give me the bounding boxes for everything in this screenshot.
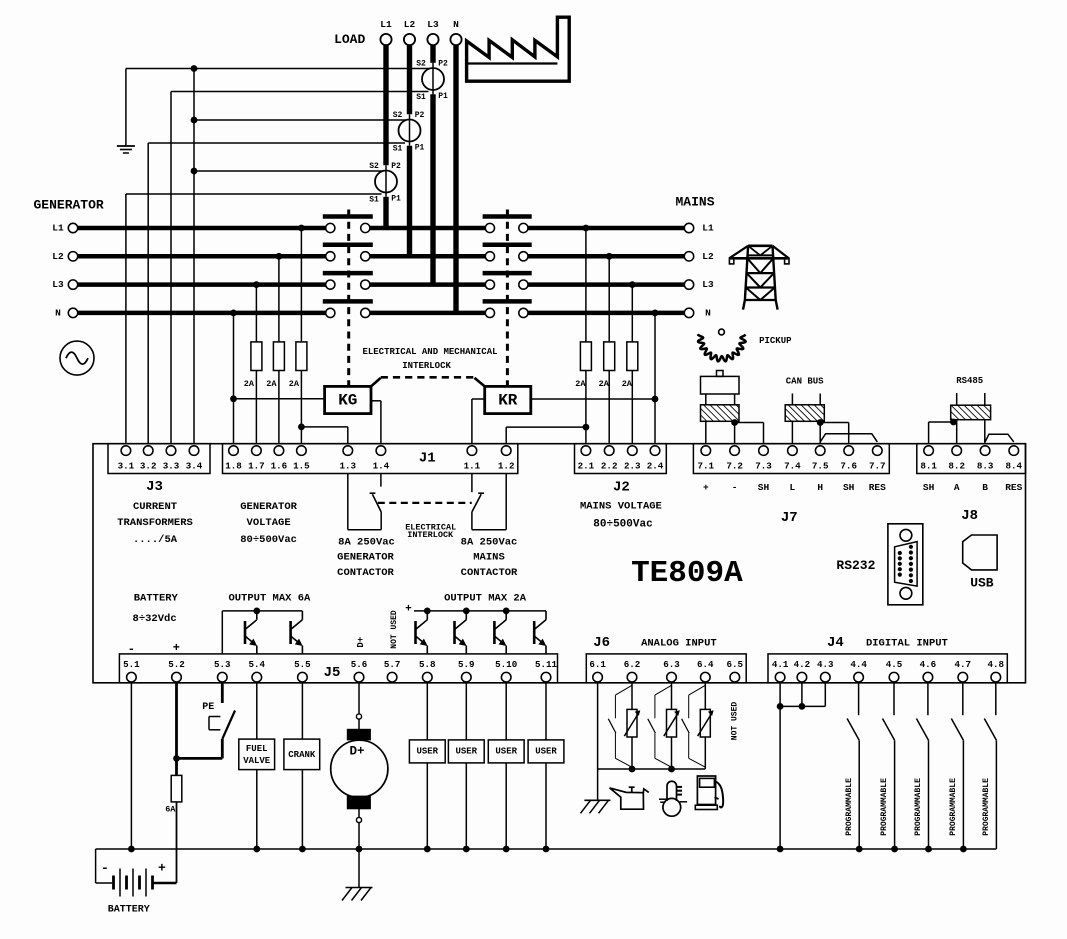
- wire tap 2.1 (L1) upper: [583, 225, 590, 342]
- wire 7.4 vertical: [791, 421, 793, 443]
- svg-text:1.5: 1.5: [293, 461, 310, 472]
- svg-text:7.2: 7.2: [726, 461, 743, 472]
- terminal 7.3: [755, 446, 772, 472]
- wire USER box to bus at 546: [543, 763, 550, 852]
- USER box at 546: [528, 740, 564, 763]
- interlock dashed line (mech): [381, 376, 475, 379]
- svg-text:PROGRAMMABLE: PROGRAMMABLE: [914, 778, 923, 836]
- terminal 4.5: [886, 659, 903, 682]
- label NOT USED rotated (6.5): [730, 702, 739, 741]
- wire generator bus L1: [78, 226, 326, 231]
- svg-text:L1: L1: [380, 19, 392, 30]
- label J7 pin H: [817, 482, 823, 493]
- terminal 5.5: [294, 659, 311, 682]
- terminal 4.3: [817, 659, 834, 682]
- svg-text:4.5: 4.5: [886, 659, 903, 670]
- svg-text:1.2: 1.2: [498, 461, 515, 472]
- main board outline TE809A controller: [93, 444, 1026, 683]
- terminal 4.4: [850, 659, 867, 682]
- wire 3.1 vertical: [125, 194, 127, 444]
- svg-text:+: +: [405, 604, 412, 616]
- pickup shielded cable (hatched): [701, 405, 740, 422]
- CAN bus stubs: [792, 394, 820, 405]
- label 8A 250Vac GENERATOR CONTACTOR: [337, 537, 395, 580]
- contactor KR pole row 4: [483, 301, 532, 317]
- generator terminal L1: [52, 223, 77, 234]
- svg-text:5.7: 5.7: [384, 659, 401, 670]
- svg-text:NOT USED: NOT USED: [390, 610, 399, 649]
- connector J2 box: [575, 444, 667, 474]
- svg-text:S1: S1: [369, 196, 379, 205]
- svg-text:LOAD: LOAD: [334, 32, 365, 47]
- wire tap 1.5 (L1) upper: [298, 225, 305, 342]
- wire tap 2.3 lower: [631, 371, 633, 444]
- svg-text:FUEL: FUEL: [246, 744, 268, 754]
- mains terminal N: [684, 307, 711, 318]
- terminal 1.3: [340, 446, 357, 472]
- wire tap 1.7 (L3) upper: [253, 281, 260, 342]
- terminal 1.5: [293, 446, 310, 472]
- D+ alternator brush bottom: [347, 796, 370, 809]
- wire KG coil left to N tap: [234, 398, 325, 400]
- svg-text:7.3: 7.3: [755, 461, 772, 472]
- generator terminal L3: [52, 279, 77, 290]
- load terminal N: [450, 19, 461, 45]
- wire 8.2 vertical: [950, 419, 957, 444]
- svg-text:2A: 2A: [599, 379, 610, 389]
- label PROGRAMMABLE (995.8): [982, 778, 991, 836]
- contactor coil KR: [485, 386, 531, 413]
- analog bypass switch (fuel level): [682, 685, 706, 767]
- wire 7.5 vertical: [817, 419, 824, 444]
- wire D+ to chassis ground: [358, 849, 360, 888]
- svg-text:NOT USED: NOT USED: [730, 702, 739, 741]
- terminal 7.7: [869, 446, 886, 472]
- terminal 8.4: [1006, 446, 1023, 472]
- terminal 2.3: [624, 446, 641, 472]
- svg-text:L3: L3: [427, 19, 439, 30]
- transistor output 5.5: [291, 611, 303, 654]
- svg-text:N: N: [453, 19, 459, 30]
- svg-text:S2: S2: [393, 111, 403, 120]
- svg-text:7.7: 7.7: [869, 461, 886, 472]
- terminal 2.4: [647, 446, 664, 472]
- wire CT common S2 bus horizontal (to CT1): [126, 68, 430, 70]
- label MAINS (top right): [675, 195, 714, 210]
- wire USER box to bus at 466.3: [463, 763, 470, 852]
- terminal 8.1: [920, 446, 937, 472]
- USB connector icon: [963, 535, 997, 570]
- label J8: [961, 508, 978, 524]
- battery cells: [114, 869, 153, 897]
- svg-text:-: -: [732, 482, 738, 493]
- wire 3.3 vertical: [170, 92, 172, 444]
- contactor KG pole row 4: [323, 301, 373, 317]
- fuse 2A mains L3: [622, 342, 638, 389]
- wire 6.1 to chassis ground: [597, 769, 599, 800]
- svg-text:USER: USER: [455, 746, 477, 756]
- svg-text:TE809A: TE809A: [631, 556, 743, 591]
- wire ground stem (CT common): [125, 69, 127, 147]
- svg-text:PROGRAMMABLE: PROGRAMMABLE: [880, 778, 889, 836]
- label minus above 5.1: [128, 642, 135, 656]
- svg-text:4.2: 4.2: [794, 659, 811, 670]
- terminal 1.4: [373, 446, 390, 472]
- label ELECTRICAL AND MECHANICAL: [362, 347, 497, 357]
- svg-text:1.1: 1.1: [464, 461, 481, 472]
- transistor output 5.10: [494, 611, 506, 654]
- svg-text:PROGRAMMABLE: PROGRAMMABLE: [949, 778, 958, 836]
- svg-text:5.3: 5.3: [214, 659, 231, 670]
- svg-text:2A: 2A: [575, 379, 586, 389]
- terminal 5.1: [123, 659, 140, 682]
- wire 5.3 down (PE lead): [221, 683, 224, 703]
- svg-text:CONTACTOR: CONTACTOR: [337, 567, 394, 579]
- terminal 4.8: [988, 659, 1005, 682]
- label INTERLOCK (mech): [402, 361, 451, 371]
- svg-text:P2: P2: [415, 111, 425, 120]
- chassis ground (analog): [581, 800, 611, 813]
- svg-text:4.7: 4.7: [955, 659, 972, 670]
- svg-text:6.5: 6.5: [727, 659, 744, 670]
- svg-text:1.7: 1.7: [248, 461, 265, 472]
- fuse 2A generator L1: [289, 342, 307, 389]
- analog bypass switch (temperature): [648, 685, 672, 767]
- terminal 5.10: [495, 659, 517, 682]
- label OUTPUT MAX 2A: [444, 592, 527, 604]
- svg-text:S1: S1: [393, 145, 403, 154]
- svg-text:ANALOG INPUT: ANALOG INPUT: [641, 637, 717, 649]
- wire 5.4 to fuel valve: [256, 683, 258, 739]
- label J8 pin RES: [1005, 482, 1022, 493]
- transistor output 5.11: [534, 611, 546, 654]
- analog sensor (oil pressure): [624, 683, 640, 769]
- label PROGRAMMABLE (894): [880, 778, 889, 836]
- oil can icon: [610, 787, 649, 809]
- wire battery negative bus: [96, 848, 997, 850]
- terminal 4.2: [794, 659, 811, 682]
- terminal 7.1: [698, 446, 715, 472]
- label J8 pin A: [954, 482, 960, 493]
- svg-text:L2: L2: [52, 251, 64, 262]
- svg-text:3.3: 3.3: [163, 461, 180, 472]
- terminal 5.3: [214, 659, 231, 682]
- svg-text:VALVE: VALVE: [243, 756, 271, 766]
- wire load bus L1 (between contactors): [370, 226, 485, 231]
- wire tap 2.1 lower: [585, 371, 587, 444]
- svg-text:8.4: 8.4: [1006, 461, 1023, 472]
- wire 5.x to USER box at 506.2: [505, 683, 507, 740]
- wire generator bus N: [78, 311, 326, 316]
- wire generator bus L2: [78, 254, 326, 259]
- wire 7.1 vertical: [705, 421, 707, 443]
- svg-text:TRANSFORMERS: TRANSFORMERS: [117, 517, 193, 529]
- D+ alternator motor circle: [331, 740, 388, 797]
- wire KG coil right to 1.4: [371, 401, 381, 444]
- svg-text:KG: KG: [338, 391, 357, 409]
- USER box at 466.3: [448, 740, 484, 763]
- svg-text:H: H: [817, 482, 823, 493]
- svg-text:1.6: 1.6: [271, 461, 288, 472]
- terminal 2.2: [601, 446, 618, 472]
- svg-text:8.2: 8.2: [948, 461, 965, 472]
- label PROGRAMMABLE (927.9): [914, 778, 923, 836]
- terminal 7.2: [726, 446, 743, 472]
- label LOAD: [334, 32, 365, 47]
- svg-text:L1: L1: [52, 223, 64, 234]
- factory / load icon: [467, 17, 570, 81]
- label PROGRAMMABLE (962.8): [949, 778, 958, 836]
- wire 6.1 down: [597, 683, 599, 769]
- svg-text:OUTPUT MAX 6A: OUTPUT MAX 6A: [228, 592, 311, 604]
- contactor KR pole row 1: [483, 217, 532, 233]
- contactor KG pole row 2: [323, 245, 373, 261]
- svg-text:3.4: 3.4: [186, 461, 203, 472]
- connector J6 box: [586, 654, 746, 683]
- terminal 3.2: [140, 446, 157, 472]
- junction S2 bus / CT2 line: [191, 117, 198, 124]
- label RS232: [836, 558, 875, 573]
- svg-text:4.8: 4.8: [988, 659, 1005, 670]
- svg-text:5.11: 5.11: [535, 659, 558, 670]
- wire CT2 S2 horizontal: [194, 119, 406, 121]
- svg-text:L3: L3: [702, 279, 714, 290]
- wire 5.3 to output feed 6A: [222, 608, 302, 654]
- wire output feed 2A: [414, 608, 546, 615]
- svg-text:2A: 2A: [266, 379, 277, 389]
- wire load bus L3 (between contactors): [370, 282, 485, 287]
- svg-text:1.3: 1.3: [340, 461, 357, 472]
- svg-text:PROGRAMMABLE: PROGRAMMABLE: [845, 778, 854, 836]
- contactor KR pole row 2: [483, 245, 532, 261]
- svg-text:SH: SH: [923, 482, 935, 493]
- svg-text:6.4: 6.4: [697, 659, 714, 670]
- pickup gear icon: [698, 329, 746, 361]
- label PROGRAMMABLE (858.6): [845, 778, 854, 836]
- svg-text:KR: KR: [498, 391, 518, 409]
- svg-text:6A: 6A: [165, 804, 176, 814]
- svg-text:SH: SH: [843, 482, 855, 493]
- CRANK box: [284, 739, 320, 770]
- generator terminal N: [55, 307, 78, 318]
- connector J7 box: [693, 444, 889, 474]
- wire tap 1.8 (N): [230, 310, 237, 444]
- load terminal L3: [427, 19, 439, 45]
- terminal 3.4: [186, 446, 203, 472]
- wire load N vertical: [453, 45, 458, 313]
- svg-text:D+: D+: [356, 637, 366, 648]
- svg-text:BATTERY: BATTERY: [134, 592, 179, 604]
- contactor KG pole row 1: [323, 217, 373, 233]
- svg-text:6.2: 6.2: [624, 659, 641, 670]
- fuse 2A mains L2: [599, 342, 615, 389]
- svg-text:3.1: 3.1: [118, 461, 135, 472]
- svg-text:7.6: 7.6: [840, 461, 857, 472]
- analog sensor (fuel level): [698, 683, 714, 769]
- wire tap 2.2 lower: [608, 371, 610, 444]
- interlock dashed line (elec): [378, 502, 472, 504]
- wire 1.2 down-around: [472, 474, 506, 530]
- wire mains bus L1: [528, 226, 684, 231]
- svg-text:A: A: [954, 482, 960, 493]
- svg-text:L3: L3: [52, 279, 64, 290]
- svg-text:J7: J7: [781, 510, 798, 526]
- wire 4.1-4.2-4.3 strap: [780, 705, 825, 707]
- svg-text:4.3: 4.3: [817, 659, 834, 670]
- terminal 5.2: [168, 659, 185, 682]
- wire load bus N (between contactors): [370, 311, 485, 316]
- svg-text:-: -: [101, 861, 109, 876]
- svg-text:D+: D+: [349, 745, 364, 759]
- svg-text:P1: P1: [391, 195, 401, 204]
- svg-text:4.1: 4.1: [772, 659, 789, 670]
- svg-text:P2: P2: [438, 60, 448, 69]
- junction S2 bus / CT3 line: [191, 168, 198, 175]
- svg-text:RES: RES: [869, 482, 886, 493]
- svg-text:5.10: 5.10: [495, 659, 517, 670]
- wire CT3 S2 horizontal: [194, 170, 383, 172]
- label J4: [827, 635, 844, 651]
- transistor output 5.9: [455, 611, 467, 654]
- svg-text:OUTPUT MAX 2A: OUTPUT MAX 2A: [444, 592, 527, 604]
- wire 4.2 down: [799, 683, 806, 710]
- svg-text:P2: P2: [391, 162, 401, 171]
- mains terminal L2: [684, 251, 714, 262]
- label OUTPUT MAX 6A: [228, 592, 311, 604]
- wire shield to 8.1: [929, 422, 957, 444]
- label CAN BUS: [786, 377, 824, 387]
- terminal 6.2: [624, 659, 641, 682]
- RS485 stubs: [957, 393, 985, 405]
- interlock lever KR: [475, 378, 485, 387]
- terminal 1.7: [248, 446, 265, 472]
- terminal 3.1: [118, 446, 135, 472]
- wire D+ down: [356, 809, 363, 853]
- svg-text:J4: J4: [827, 635, 844, 651]
- wire 5.6 down: [356, 683, 361, 730]
- wire CT2 S1 horizontal: [148, 142, 405, 144]
- wire load L2 vertical: [407, 45, 412, 256]
- wire USER box to bus at 427.3: [424, 763, 431, 852]
- svg-text:J8: J8: [961, 508, 978, 524]
- svg-text:ELECTRICAL AND MECHANICAL: ELECTRICAL AND MECHANICAL: [362, 347, 497, 357]
- terminal 5.6: [351, 659, 368, 682]
- svg-text:8.1: 8.1: [920, 461, 937, 472]
- terminal 1.8: [225, 446, 242, 472]
- generator contactor aux switch: [370, 474, 382, 512]
- svg-text:8A 250Vac: 8A 250Vac: [338, 537, 395, 549]
- analog sensor (temperature): [664, 683, 680, 769]
- RS485 terminator (hatched): [951, 405, 991, 420]
- svg-text:3.2: 3.2: [140, 461, 157, 472]
- label USB: [970, 576, 994, 591]
- svg-text:L2: L2: [702, 251, 714, 262]
- label GENERATOR VOLTAGE 80-500Vac: [240, 501, 297, 546]
- wire generator bus L3: [78, 282, 326, 287]
- wire mains bus N: [528, 311, 684, 316]
- svg-text:2A: 2A: [289, 379, 300, 389]
- svg-text:5.5: 5.5: [294, 659, 311, 670]
- fuse 2A generator L3: [244, 342, 262, 389]
- svg-text:5.8: 5.8: [419, 659, 436, 670]
- RS232 DB9 connector: [888, 524, 923, 605]
- svg-text:PE: PE: [202, 702, 214, 713]
- svg-text:8.3: 8.3: [977, 461, 994, 472]
- fuse 6A battery: [165, 758, 182, 814]
- svg-text:MAINS VOLTAGE: MAINS VOLTAGE: [580, 500, 662, 512]
- svg-text:USER: USER: [535, 746, 557, 756]
- contactor KG pole row 3: [323, 273, 373, 289]
- connector J8 box: [917, 444, 1026, 474]
- svg-text:+: +: [173, 641, 180, 655]
- wire 3.4 common vertical: [193, 69, 195, 444]
- svg-text:S1: S1: [416, 93, 426, 102]
- connector J3 box: [108, 444, 210, 474]
- wire 5.1 to battery bus: [128, 683, 135, 853]
- svg-text:VOLTAGE: VOLTAGE: [247, 517, 291, 529]
- label + (2A feed): [405, 604, 412, 616]
- wire fuel valve to bus: [253, 770, 260, 853]
- wire USER box to bus at 506.2: [503, 763, 510, 852]
- mechanical linkage dashed KG: [347, 210, 350, 387]
- label 8A 250Vac MAINS CONTACTOR: [461, 537, 518, 580]
- label DIGITAL INPUT: [866, 637, 948, 649]
- terminal 5.8: [419, 659, 436, 682]
- transistor output 5.4: [245, 611, 257, 654]
- wire tap 1.7 lower: [255, 371, 257, 444]
- svg-text:GENERATOR: GENERATOR: [337, 552, 394, 564]
- terminal 2.1: [578, 446, 595, 472]
- wire tap 1.5 lower: [298, 371, 305, 444]
- label J7: [781, 510, 798, 526]
- wire battery minus to bus: [96, 849, 112, 883]
- svg-text:6.3: 6.3: [663, 659, 680, 670]
- svg-text:CRANK: CRANK: [288, 750, 316, 760]
- earth ground symbol (CT common): [117, 146, 135, 153]
- label MAINS VOLTAGE 80-500Vac: [580, 500, 662, 530]
- svg-text:2.2: 2.2: [601, 461, 618, 472]
- svg-text:2.3: 2.3: [624, 461, 641, 472]
- fuel pump icon: [695, 776, 723, 810]
- terminal 1.2: [498, 446, 515, 472]
- svg-text:2A: 2A: [244, 379, 255, 389]
- load terminal L1: [380, 19, 392, 45]
- wire bridge 7.5 to 7.7: [820, 434, 877, 442]
- terminal 3.3: [163, 446, 180, 472]
- wire PE to 5.2 line: [177, 739, 223, 758]
- terminal 8.2: [948, 446, 965, 472]
- label TE809A: [631, 556, 743, 591]
- digital input switch 4.5: [883, 683, 898, 853]
- mains terminal L3: [684, 279, 714, 290]
- wire load L1 vertical: [383, 45, 388, 228]
- wire 7.2 vertical: [731, 419, 738, 444]
- label J7 pin SH: [843, 482, 855, 493]
- svg-text:P1: P1: [415, 144, 425, 153]
- svg-text:J5: J5: [324, 665, 341, 681]
- svg-text:DIGITAL INPUT: DIGITAL INPUT: [866, 637, 948, 649]
- svg-text:+: +: [703, 482, 709, 493]
- svg-text:S2: S2: [369, 162, 379, 171]
- svg-text:RS232: RS232: [836, 558, 875, 573]
- svg-text:5.2: 5.2: [168, 659, 185, 670]
- svg-text:7.4: 7.4: [784, 461, 801, 472]
- svg-text:PROGRAMMABLE: PROGRAMMABLE: [982, 778, 991, 836]
- svg-text:P1: P1: [438, 92, 448, 101]
- connector J1 box: [223, 444, 518, 474]
- svg-text:7.1: 7.1: [698, 461, 715, 472]
- terminal 7.6: [840, 446, 857, 472]
